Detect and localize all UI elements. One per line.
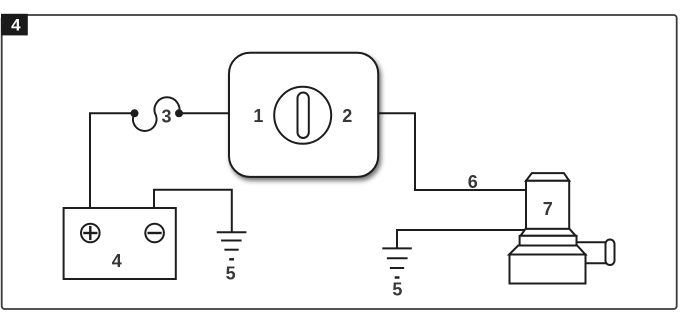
wire battery minus to ground (154, 190, 232, 233)
battery 4 (64, 208, 176, 279)
svg-text:3: 3 (161, 107, 171, 127)
svg-text:5: 5 (392, 280, 402, 300)
svg-text:4: 4 (112, 251, 122, 271)
svg-text:6: 6 (468, 172, 478, 192)
wire fuse to switch pin 1 (179, 112, 230, 114)
svg-text:4: 4 (11, 16, 21, 35)
svg-text:5: 5 (226, 264, 236, 284)
key switch (229, 53, 378, 177)
fuel pump 7 (509, 173, 614, 283)
wire pump ground (397, 230, 526, 248)
fuse 3 (131, 97, 184, 131)
svg-text:2: 2 (342, 106, 352, 126)
figure label box 4 (1, 14, 28, 36)
wire switch pin 2 to pump (377, 113, 528, 190)
ground right (382, 248, 412, 277)
ground left (217, 232, 247, 259)
svg-text:1: 1 (253, 106, 263, 126)
wire battery plus to fuse (90, 113, 135, 208)
svg-text:7: 7 (543, 199, 553, 219)
